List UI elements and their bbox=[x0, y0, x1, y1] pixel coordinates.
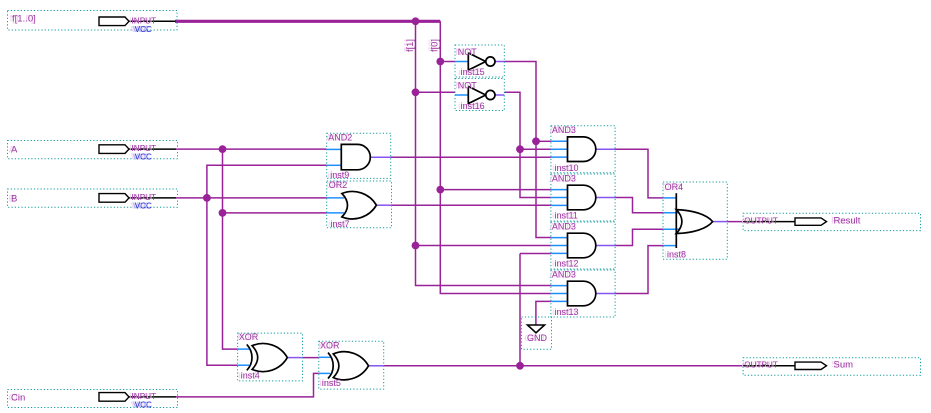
svg-text:NOT: NOT bbox=[458, 81, 478, 91]
svg-text:XOR: XOR bbox=[320, 340, 340, 350]
svg-text:Sum: Sum bbox=[834, 360, 854, 371]
svg-text:OUTPUT: OUTPUT bbox=[744, 361, 778, 370]
svg-text:VCC: VCC bbox=[135, 400, 152, 409]
AND3 gate inst10 bbox=[551, 125, 615, 173]
wire: NOT inst15 output to AND3 inst12 input 1 bbox=[504, 62, 551, 238]
svg-text:inst12: inst12 bbox=[555, 259, 579, 269]
net label f[1] (rotated) bbox=[405, 39, 415, 52]
OR4 gate inst8 bbox=[663, 182, 727, 260]
AND3 gate inst11 bbox=[551, 173, 615, 221]
junction B wire bbox=[203, 194, 211, 202]
svg-text:inst9: inst9 bbox=[330, 170, 349, 180]
AND2 gate inst9 bbox=[327, 132, 391, 180]
svg-text:inst8: inst8 bbox=[667, 250, 686, 260]
svg-text:B: B bbox=[11, 193, 17, 204]
junction Sum / inst12 input 3 branch bbox=[516, 362, 524, 370]
svg-text:inst7: inst7 bbox=[331, 219, 350, 229]
input pin Cin bbox=[8, 390, 178, 410]
junction f[1] / inst12 input 2 bbox=[412, 242, 420, 250]
wire: OR4 inst8 output to OUTPUT Result pin bbox=[727, 221, 743, 223]
wire: AND3 inst10 output to OR4 inst8 input 1 bbox=[615, 149, 663, 198]
wire: AND3 inst11 output to OR4 inst8 input 2 bbox=[615, 198, 663, 213]
svg-text:VCC: VCC bbox=[135, 201, 152, 210]
svg-text:AND2: AND2 bbox=[328, 132, 352, 142]
junction on bus at f[1] tap bbox=[412, 17, 420, 25]
junction f[1] / NOT inst16 input bbox=[412, 88, 420, 96]
wire: input B to OR2 inst7 input 1 bbox=[176, 197, 327, 199]
wire: AND3 inst13 output to OR4 inst8 input 4 bbox=[615, 246, 663, 294]
svg-text:OR2: OR2 bbox=[329, 180, 348, 190]
wire: GND to AND3 inst13 input 3 bbox=[536, 301, 551, 325]
wire: branch not-f[1] to AND3 inst10 input 2 bbox=[520, 148, 551, 150]
svg-text:AND3: AND3 bbox=[552, 125, 576, 135]
wire: bus f[1..0] from input pin bbox=[175, 20, 440, 23]
wire: net A vertical down to XOR inst4 input 1 bbox=[223, 149, 238, 349]
input pin f[1..0] bbox=[8, 11, 178, 34]
wire: branch f[0] to AND3 inst11 input 1 bbox=[440, 189, 551, 191]
wire: input Cin to XOR inst5 input 2 bbox=[176, 373, 319, 397]
svg-text:AND3: AND3 bbox=[552, 269, 576, 279]
input pin B bbox=[8, 189, 178, 210]
svg-text:AND3: AND3 bbox=[552, 221, 576, 231]
junction f[0] / inst11 input 1 bbox=[436, 186, 444, 194]
OR2 gate inst7 bbox=[327, 180, 392, 229]
AND3 gate inst13 bbox=[551, 269, 615, 317]
svg-text:f[1]: f[1] bbox=[405, 39, 415, 52]
wire: input A to AND2 inst9 input 1 bbox=[176, 148, 327, 150]
wire: net f[1] vertical down to AND3 inst13 input 1 bbox=[416, 21, 551, 285]
svg-text:inst5: inst5 bbox=[322, 378, 341, 388]
svg-text:Cin: Cin bbox=[11, 392, 25, 403]
ground symbol GND bbox=[522, 317, 552, 349]
net label f[0] (rotated) bbox=[429, 39, 439, 52]
junction A wire bbox=[219, 145, 227, 153]
svg-text:f[0]: f[0] bbox=[429, 39, 439, 52]
wire: XOR inst4 output to XOR inst5 input 1 bbox=[302, 357, 318, 359]
svg-text:OR4: OR4 bbox=[665, 182, 684, 192]
output pin Sum bbox=[743, 358, 920, 375]
junction not-f[0] / inst10 input 1 bbox=[532, 137, 540, 145]
svg-text:inst15: inst15 bbox=[461, 67, 485, 77]
svg-text:inst13: inst13 bbox=[555, 307, 579, 317]
wire: branch f[1] to AND3 inst12 input 2 bbox=[416, 245, 551, 247]
junction f[0] / NOT inst15 input bbox=[436, 58, 444, 66]
input pin A bbox=[8, 141, 178, 162]
svg-text:A: A bbox=[11, 145, 18, 156]
XOR gate inst5 bbox=[319, 340, 384, 389]
AND3 gate inst12 bbox=[551, 221, 615, 269]
output pin Result bbox=[743, 213, 920, 230]
junction not-f[1] / inst10 input 2 bbox=[516, 145, 524, 153]
wire: f[0] to NOT inst15 input bbox=[440, 61, 455, 63]
svg-text:OUTPUT: OUTPUT bbox=[744, 217, 778, 226]
wire: branch A to OR2 inst7 input 2 bbox=[223, 212, 327, 214]
wire: net f[0] vertical down to AND3 inst13 input 2 bbox=[440, 21, 551, 293]
svg-text:inst16: inst16 bbox=[461, 101, 485, 111]
wire: AND2 inst9 output to AND3 inst10 input 3 bbox=[391, 156, 551, 158]
wire: Sum net from XOR inst5 output to OUTPUT pin bbox=[384, 365, 743, 367]
svg-text:Result: Result bbox=[834, 215, 861, 226]
svg-text:inst11: inst11 bbox=[555, 211, 578, 221]
junction A / OR2 input 2 bbox=[219, 209, 227, 217]
svg-text:VCC: VCC bbox=[135, 153, 152, 162]
svg-text:GND: GND bbox=[527, 333, 548, 343]
wire: f[1] to NOT inst16 input bbox=[416, 91, 456, 93]
svg-text:NOT: NOT bbox=[458, 47, 478, 57]
svg-text:inst4: inst4 bbox=[241, 371, 260, 381]
NOT gate inst16 bbox=[455, 79, 504, 112]
svg-text:inst10: inst10 bbox=[555, 163, 579, 173]
wire: NOT inst16 output to AND3 inst11 input 2 bbox=[504, 92, 551, 197]
svg-text:XOR: XOR bbox=[239, 332, 259, 342]
wire: OR2 inst7 output to AND3 inst11 input 3 bbox=[392, 204, 551, 206]
wire: net B up to AND2 inst9 input 2 and down to XOR inst4 input 2 bbox=[207, 165, 327, 365]
XOR gate inst4 bbox=[238, 332, 303, 381]
svg-text:AND3: AND3 bbox=[552, 173, 576, 183]
svg-text:f[1..0]: f[1..0] bbox=[12, 14, 36, 25]
svg-text:VCC: VCC bbox=[135, 25, 152, 34]
NOT gate inst15 bbox=[455, 45, 504, 77]
wire: AND3 inst12 output to OR4 inst8 input 3 bbox=[615, 229, 663, 245]
wire: Sum branch up to AND3 inst12 input 3 bbox=[520, 254, 551, 366]
wire: branch not-f[0] to AND3 inst10 input 1 bbox=[536, 140, 551, 142]
